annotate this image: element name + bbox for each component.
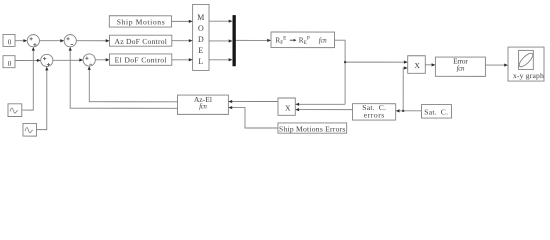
wire MODEL out2 to mux [209,40,231,42]
wire Sat C to Sat C errors [397,110,422,112]
svg-text:Sat. C.: Sat. C. [424,108,448,117]
arrowhead into Az-El fcn in2 [228,106,232,109]
svg-text:fcn: fcn [457,64,465,72]
constant block 0 lower [3,56,15,68]
svg-text:X: X [285,103,291,112]
svg-text:O: O [198,24,204,33]
wire const0 B to sum C [15,60,39,62]
svg-text:Ship Motions Errors: Ship Motions Errors [279,125,346,134]
block Sat C errors [352,104,395,120]
block signal generator 1 [8,104,22,117]
svg-text:fcn: fcn [199,104,207,111]
block El DoF Control [110,54,172,65]
svg-text:D: D [198,35,204,44]
svg-text:0: 0 [8,38,12,46]
arrowhead into sum C south [45,67,48,71]
wire Az-El fcn out1 to sum D [89,67,177,101]
mux bar [233,15,236,66]
wire tap up to product X1 in2 [403,68,406,111]
wire mux to RFE block [236,39,270,41]
arrowhead into product X2 in2 [295,108,299,111]
arrowhead into Error fcn [432,63,436,66]
arrowhead into mux 3 [229,58,233,61]
wire MODEL out3 to mux [209,59,231,61]
wire sine2 to sum C [36,68,46,130]
arrowhead into RFE block [267,39,271,42]
wire sum D to El DoF Control [95,59,108,61]
svg-text:fcn: fcn [319,37,328,44]
svg-text:E: E [198,46,203,55]
wire Sat C errors to product X2 in2 [296,109,352,111]
wire El DoF Control to MODEL [172,59,192,61]
block product X1 [408,56,426,74]
svg-text:El DoF Control: El DoF Control [115,56,167,65]
block RFE to REP fcn [271,32,335,48]
xy graph ellipse [517,51,534,68]
wire Ship Motions Errors to Az-El fcn in2 [228,108,278,128]
sum A circle [27,35,39,47]
block Error fcn [435,57,485,76]
wire MODEL out1 to mux [209,20,231,22]
block Ship Motions Errors [278,123,347,133]
wire sine1 to sum A [22,48,34,110]
wire Ship Motions to MODEL [172,20,192,22]
arrowhead into sum A west [23,39,27,42]
wire sum B to Az DoF Control [76,40,108,42]
svg-text:Ship Motions: Ship Motions [117,17,166,26]
arrowhead into Az DoF Control [106,39,110,42]
svg-text:M: M [197,13,204,22]
wire product X2 out to Az-El fcn in1 [228,100,278,102]
block signal generator 2 [23,123,37,136]
constant block 0 upper [3,34,15,46]
svg-text:X: X [414,61,420,70]
svg-text:0: 0 [8,60,12,68]
block Sat C [421,105,451,119]
block Az DoF Control [110,35,172,46]
arrowhead into MODEL in3 [189,58,193,61]
arrowhead into sum C west [37,59,41,62]
block product X2 [278,98,295,115]
arrowhead into MODEL in2 [189,39,193,42]
svg-text:x-y graph: x-y graph [513,71,544,80]
arrowhead into Az-El fcn in1 [228,100,232,103]
wire down branch to product X2 in1 [296,103,345,105]
arrowhead into El DoF Control [106,58,110,61]
sum D circle [83,54,95,66]
block Az-El fcn [177,95,228,114]
xy graph screen [519,50,534,69]
block xy graph [508,47,544,81]
arrowhead into mux 2 [229,39,233,42]
wire Error fcn to xy graph [485,64,506,66]
junction dot at branch [344,61,346,63]
arrowhead into mux 1 [229,20,233,23]
block Ship Motions [109,16,171,27]
wire RFE block right then down [334,40,345,104]
arrowhead into product X1 in1 [404,61,408,64]
arrowhead into sum A south [32,47,35,51]
wire const0 A to sum A [15,40,26,42]
junction dot on Sat C wire [402,110,404,112]
svg-text:errors: errors [364,111,385,120]
wire branch to product X1 in1 [345,61,406,63]
block MODEL [193,4,209,70]
arrowhead into sum D south [88,66,91,70]
svg-text:L: L [198,57,203,66]
sum B circle [64,35,76,47]
arrowhead into xy graph [504,63,508,66]
wire product X1 to Error fcn [425,64,434,66]
svg-text:Az DoF Control: Az DoF Control [115,37,168,46]
wire Az-El fcn out2 to sum B [70,48,177,108]
arrowhead into sum B south [69,47,72,51]
arrowhead into Sat C errors [396,109,400,112]
arrowhead into product X2 in1 [295,103,299,106]
arrowhead into sum B west [60,39,64,42]
wire sum C to sum D [53,59,82,61]
arrowhead into product X1 in2 [404,66,408,69]
arrowhead into MODEL in1 [189,20,193,23]
sum C circle [41,54,53,66]
wire Az DoF Control to MODEL [172,40,192,42]
wire sum A to sum B [39,40,63,42]
arrowhead into sum D west [79,58,83,61]
